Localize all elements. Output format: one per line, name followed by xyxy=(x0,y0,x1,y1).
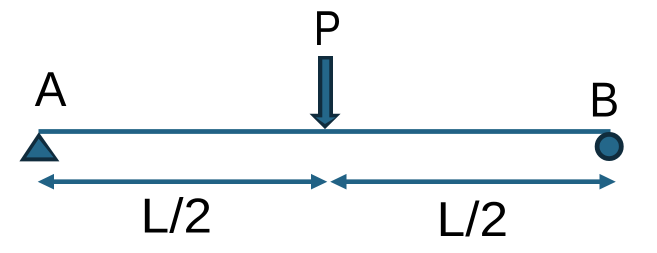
svg-text:L/2: L/2 xyxy=(437,193,508,247)
svg-text:L/2: L/2 xyxy=(141,190,212,244)
svg-text:B: B xyxy=(589,74,619,128)
svg-text:A: A xyxy=(35,63,67,117)
svg-text:P: P xyxy=(314,2,342,56)
